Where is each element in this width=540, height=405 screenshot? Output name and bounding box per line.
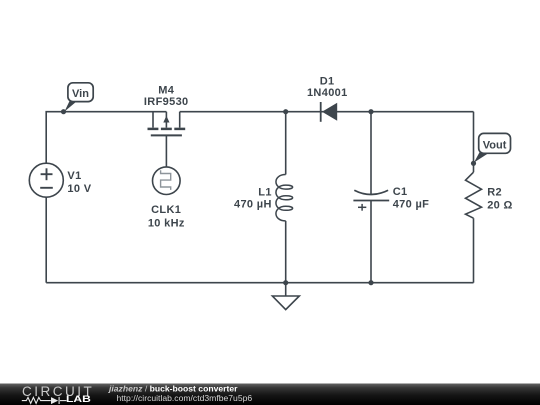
diode D1 bbox=[321, 102, 338, 122]
capacitor C1 bbox=[353, 190, 389, 211]
label M4 IRF9530 bbox=[144, 84, 189, 108]
node C1 top bbox=[368, 109, 373, 114]
label V1 10 V bbox=[67, 170, 91, 195]
svg-text:20 Ω: 20 Ω bbox=[487, 199, 513, 211]
flag Vout bbox=[474, 133, 511, 162]
wire C1 branch upper bbox=[370, 112, 372, 195]
svg-text:M4: M4 bbox=[158, 84, 175, 96]
svg-text:V1: V1 bbox=[67, 170, 81, 182]
node C1 bottom bbox=[368, 280, 373, 285]
label L1 470 uH bbox=[234, 186, 272, 210]
svg-text:LAB: LAB bbox=[66, 394, 91, 404]
node Vin dot bbox=[61, 109, 66, 114]
wire right rail upper bbox=[473, 112, 475, 173]
footer title text bbox=[108, 383, 252, 403]
inductor L1 bbox=[276, 175, 293, 221]
wire right rail lower bbox=[473, 218, 475, 283]
svg-text:CLK1: CLK1 bbox=[151, 204, 181, 216]
label R2 20 Ohm bbox=[487, 186, 513, 211]
label D1 1N4001 bbox=[307, 75, 348, 99]
wire top rail left bbox=[46, 112, 166, 164]
wire top rail right bbox=[180, 111, 474, 113]
svg-text:jiazhenz / buck-boost converte: jiazhenz / buck-boost converter bbox=[108, 383, 238, 393]
svg-text:R2: R2 bbox=[487, 186, 502, 198]
svg-text:L1: L1 bbox=[258, 186, 272, 198]
svg-text:470 µH: 470 µH bbox=[234, 199, 272, 211]
voltage source V1 bbox=[29, 163, 63, 197]
label C1 470 uF bbox=[393, 186, 430, 210]
svg-text:Vin: Vin bbox=[72, 88, 89, 100]
svg-text:IRF9530: IRF9530 bbox=[144, 96, 189, 108]
svg-text:C1: C1 bbox=[393, 186, 408, 198]
label CLK1 10 kHz bbox=[148, 204, 185, 230]
svg-text:1N4001: 1N4001 bbox=[307, 87, 348, 99]
ground bbox=[272, 283, 299, 310]
svg-text:D1: D1 bbox=[320, 75, 335, 87]
svg-text:http://circuitlab.com/ctd3mfbe: http://circuitlab.com/ctd3mfbe7u5p6 bbox=[117, 393, 253, 403]
CircuitLab logo bbox=[22, 384, 94, 404]
wire L1 branch lower bbox=[285, 221, 287, 283]
footer bar bbox=[0, 384, 540, 405]
svg-text:10 V: 10 V bbox=[67, 183, 91, 195]
svg-text:10 kHz: 10 kHz bbox=[148, 218, 185, 230]
node L1 bottom bbox=[283, 280, 288, 285]
resistor R2 bbox=[466, 172, 482, 218]
wire bottom rail bbox=[46, 282, 473, 284]
svg-text:470 µF: 470 µF bbox=[393, 199, 430, 211]
wire gate to CLK1 bbox=[165, 135, 167, 167]
svg-text:Vout: Vout bbox=[483, 139, 507, 151]
flag Vin bbox=[65, 83, 94, 112]
wire C1 branch lower bbox=[370, 201, 372, 283]
clock source CLK1 bbox=[153, 167, 181, 195]
transistor M4 bbox=[148, 112, 186, 136]
node L1 top bbox=[283, 109, 288, 114]
node Vout dot bbox=[471, 161, 476, 166]
wire left rail lower bbox=[45, 197, 47, 283]
wire L1 branch upper bbox=[285, 112, 287, 175]
